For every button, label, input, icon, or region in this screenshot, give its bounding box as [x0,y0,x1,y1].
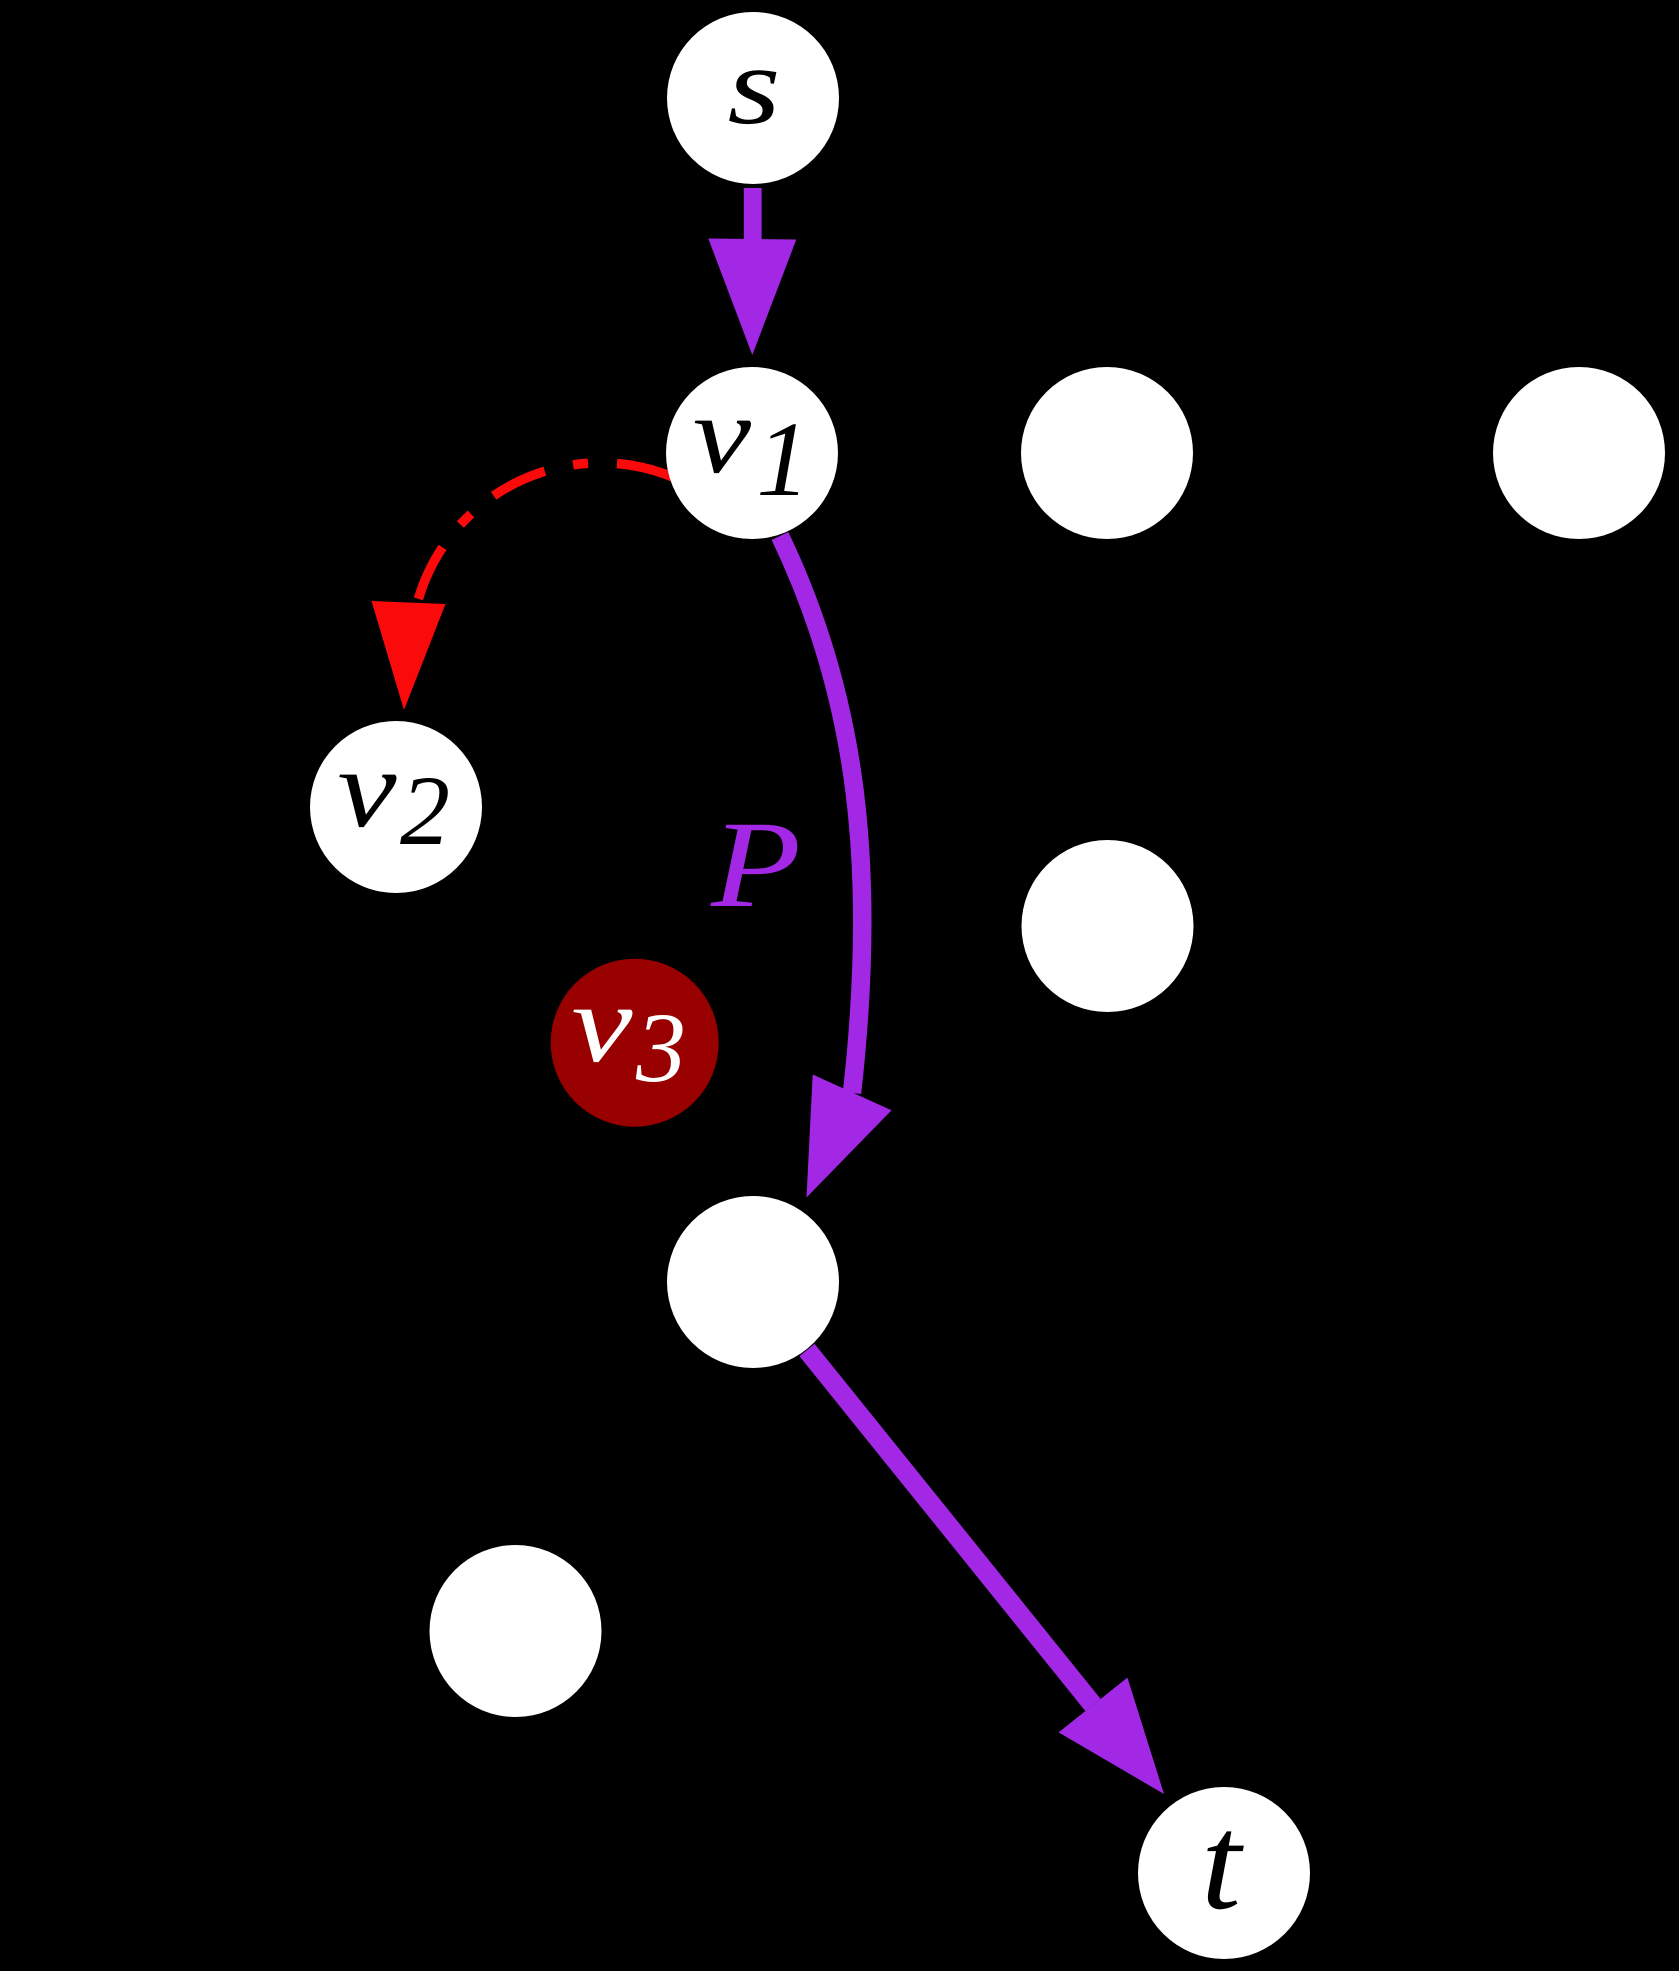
svg-text:s: s [728,24,781,148]
svg-text:1: 1 [756,401,810,519]
svg-text:v: v [693,373,751,497]
svg-text:3: 3 [635,992,686,1103]
svg-text:P: P [710,796,801,933]
svg-text:t: t [1201,1788,1244,1938]
svg-text:2: 2 [400,755,450,866]
svg-text:v: v [572,962,633,1086]
svg-text:v: v [338,727,397,851]
